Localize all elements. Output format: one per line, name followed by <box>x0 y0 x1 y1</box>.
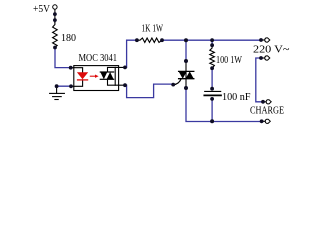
svg-text:MOC 3041: MOC 3041 <box>79 53 118 64</box>
svg-text:+5V: +5V <box>33 4 51 15</box>
svg-text:180: 180 <box>61 33 76 44</box>
svg-text:100 1W: 100 1W <box>216 55 242 66</box>
svg-text:CHARGE: CHARGE <box>250 105 284 116</box>
svg-text:1K 1W: 1K 1W <box>142 23 164 34</box>
svg-text:100 nF: 100 nF <box>222 92 251 103</box>
svg-text:220 V~: 220 V~ <box>253 44 290 55</box>
